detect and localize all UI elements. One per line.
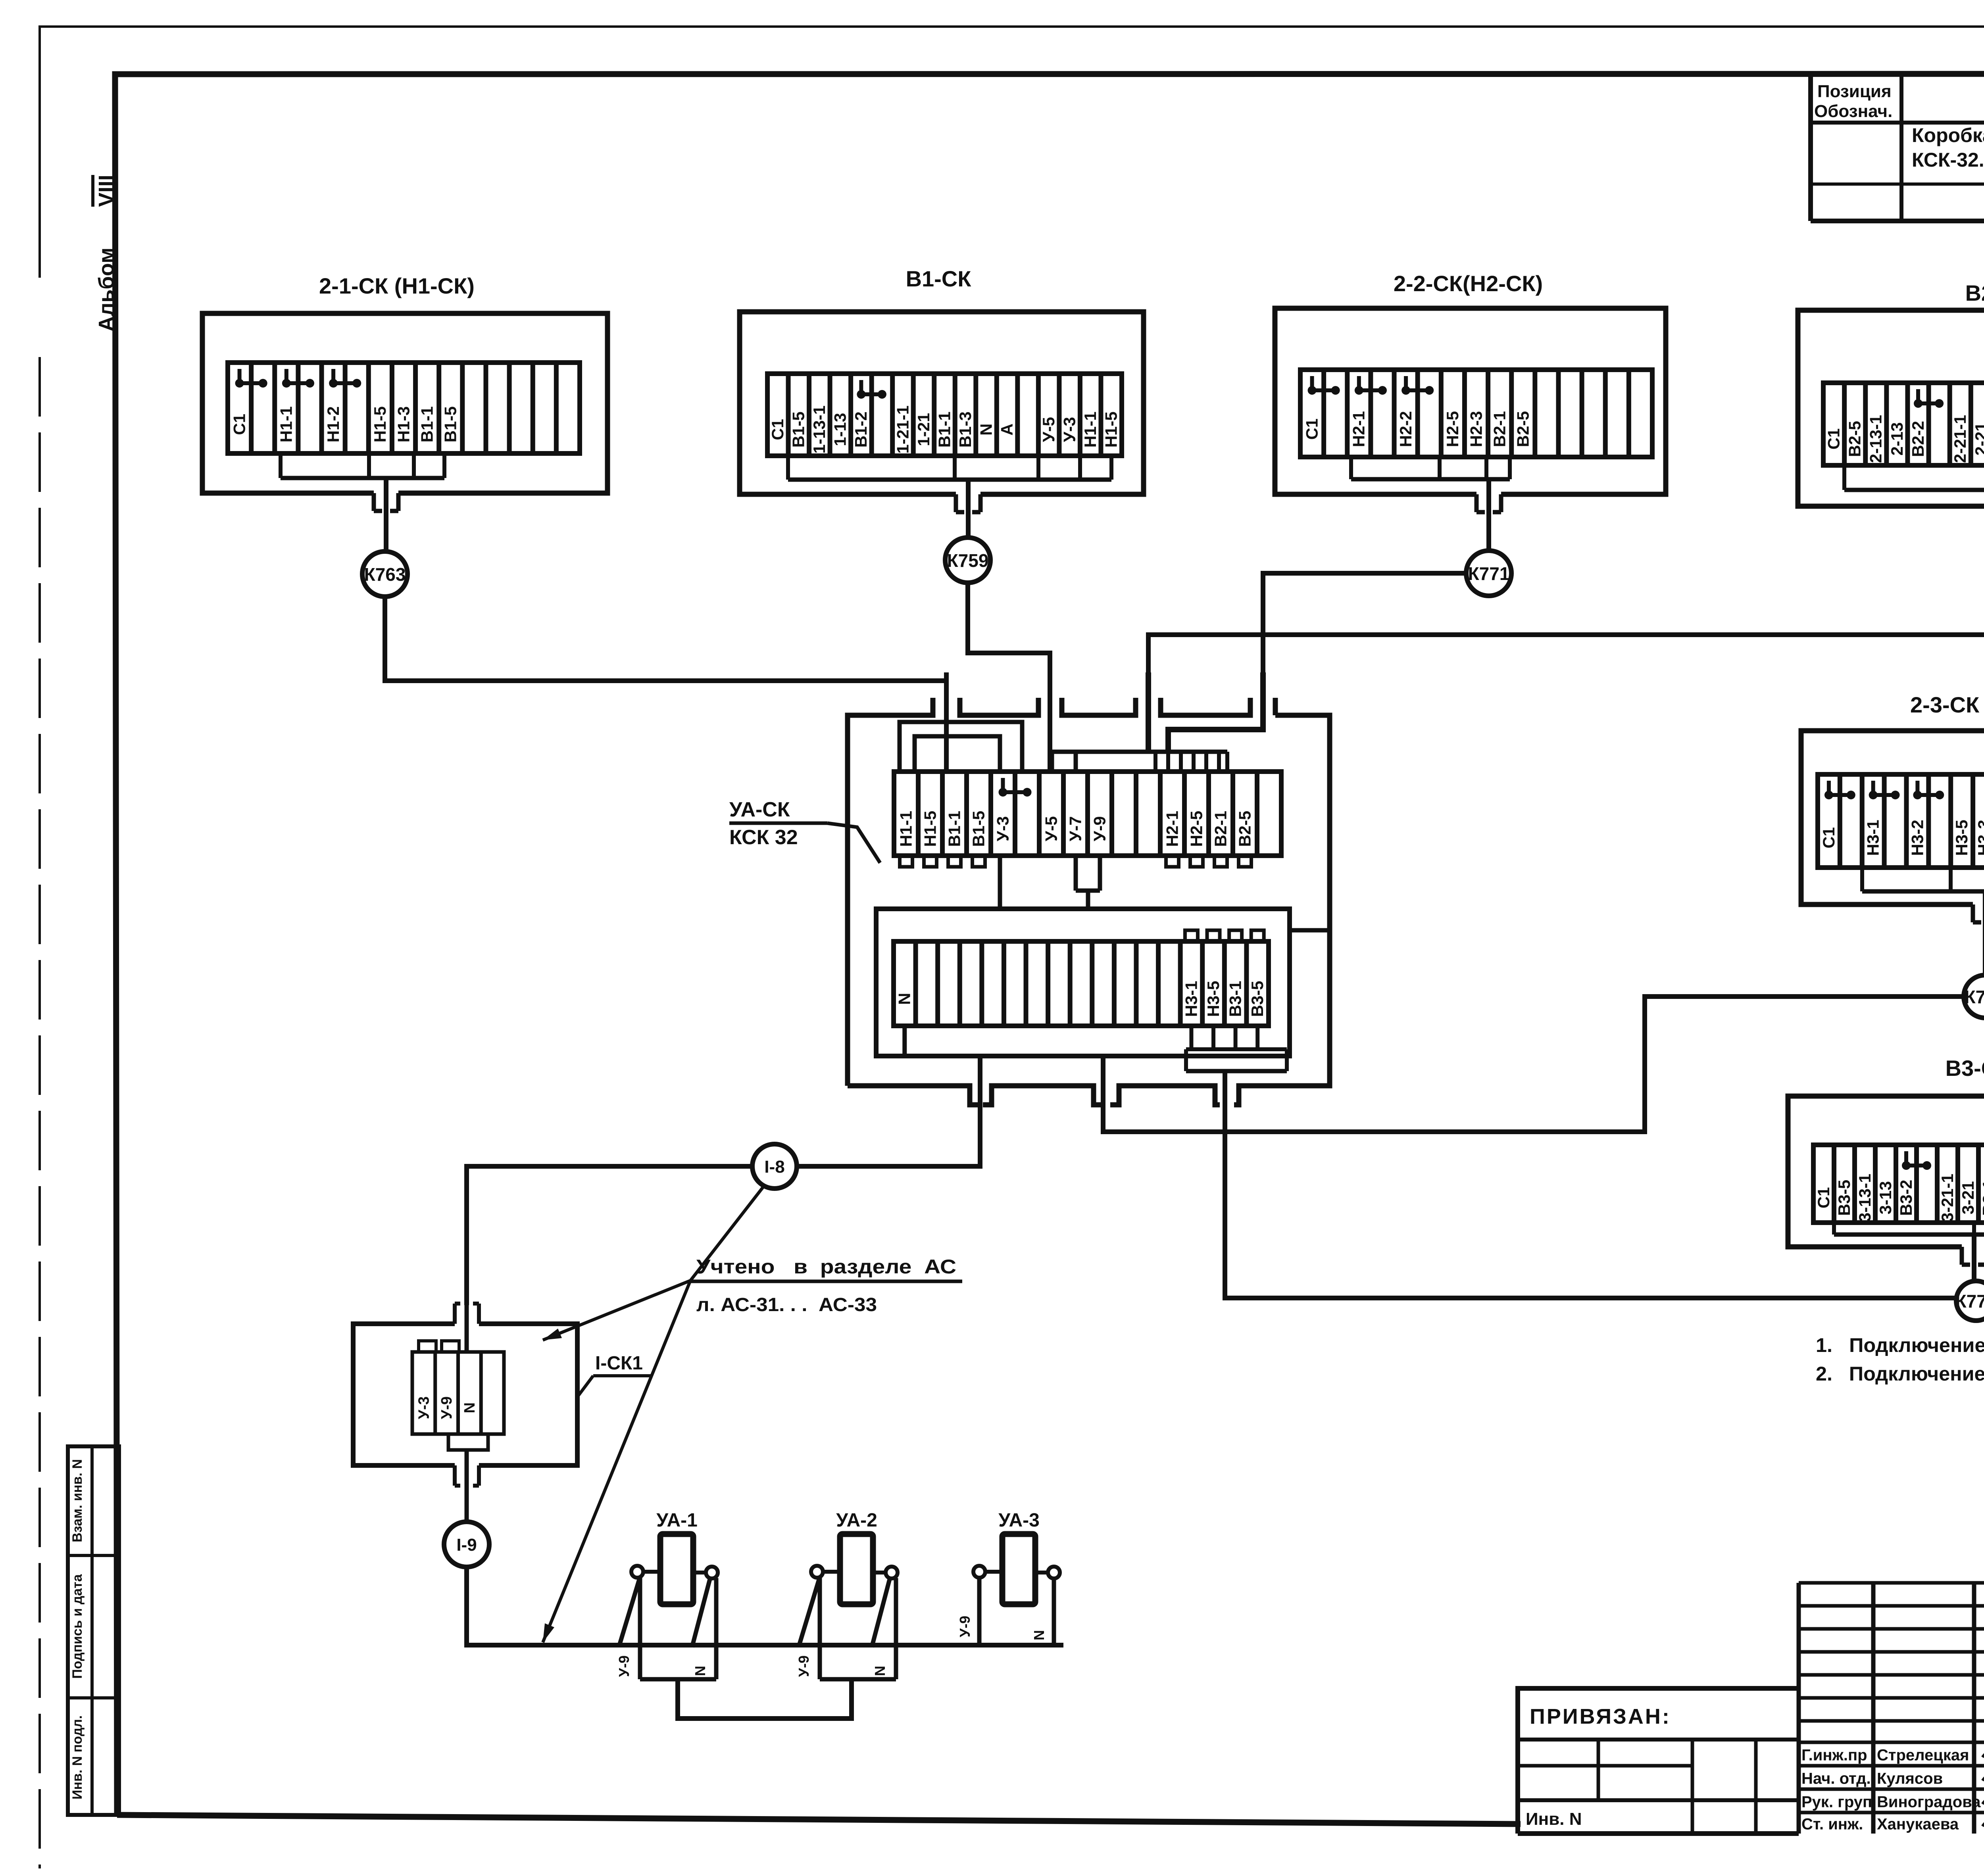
svg-text:У-5: У-5	[1042, 816, 1060, 841]
svg-text:Н1-5: Н1-5	[371, 406, 389, 442]
svg-text:С1: С1	[1824, 428, 1843, 450]
svg-text:л. АС-31. . . АС-33: л. АС-31. . . АС-33	[696, 1294, 877, 1315]
svg-text:Инв. N подл.: Инв. N подл.	[70, 1715, 85, 1799]
svg-text:В2-2: В2-2	[1909, 421, 1927, 457]
svg-text:Подпись и дата: Подпись и дата	[70, 1574, 85, 1679]
svg-text:У-9: У-9	[796, 1655, 812, 1677]
svg-text:Н1-5: Н1-5	[921, 811, 939, 847]
svg-text:Н2-2: Н2-2	[1396, 411, 1415, 447]
svg-text:Н2-1: Н2-1	[1350, 411, 1368, 447]
svg-text:В2-СК: В2-СК	[1965, 280, 1984, 305]
upper wiring brackets left group	[900, 722, 1022, 772]
svg-text:Взам. инв. N: Взам. инв. N	[70, 1459, 85, 1542]
upper terminal strip of УА-СК	[894, 772, 1281, 856]
terminal strip of В2-СК	[1823, 383, 1984, 465]
spares table header texts	[1814, 82, 1984, 121]
svg-text:Учтено в разделе АС: Учтено в разделе АС	[696, 1256, 956, 1278]
svg-text:Инв. N: Инв. N	[1526, 1809, 1582, 1829]
wire I-9 to bottom bus	[467, 1567, 1063, 1645]
circle I-9	[444, 1522, 489, 1567]
svg-text:I-8: I-8	[764, 1157, 784, 1177]
svg-text:Рук. груп: Рук. груп	[1801, 1793, 1872, 1811]
svg-text:Н3-1: Н3-1	[1864, 820, 1882, 856]
svg-text:У-7: У-7	[1066, 816, 1084, 841]
svg-text:Н2-5: Н2-5	[1443, 411, 1462, 447]
terminal box 2-1-СК outline	[202, 313, 608, 511]
svg-text:В3-2: В3-2	[1897, 1180, 1915, 1216]
wire K771 to УА-СК	[1263, 573, 1466, 674]
svg-text:У-3: У-3	[415, 1396, 432, 1419]
svg-text:У-9: У-9	[616, 1655, 632, 1677]
svg-text:N: N	[692, 1666, 708, 1676]
wire K763 to УА-СК	[385, 597, 946, 681]
wire from K763 into tab1	[944, 672, 949, 772]
svg-text:N: N	[895, 993, 914, 1005]
terminal box 2-2-СК title	[1394, 271, 1543, 296]
svg-text:Н2-5: Н2-5	[1187, 811, 1205, 847]
svg-text:ПРИВЯЗАН:: ПРИВЯЗАН:	[1530, 1705, 1671, 1728]
svg-text:В1-5: В1-5	[441, 406, 460, 442]
device УА-2	[796, 1510, 898, 1679]
svg-text:Н3-1: Н3-1	[1182, 981, 1200, 1017]
svg-text:Н1-2: Н1-2	[324, 406, 342, 442]
terminal box 2-3-СК outline	[1801, 731, 1984, 922]
wire N cell to inner box bottom	[902, 1026, 907, 1056]
svg-text:1-21: 1-21	[914, 413, 933, 446]
svg-text:УА-1: УА-1	[656, 1510, 698, 1531]
svg-text:К759: К759	[947, 550, 989, 571]
svg-text:В2-5: В2-5	[1846, 421, 1864, 457]
svg-text:N: N	[872, 1666, 888, 1676]
terminal strip of 2-3-СК	[1818, 774, 1984, 868]
junction box УА-СК outline	[848, 698, 1330, 1105]
svg-text:Н1-5: Н1-5	[1102, 411, 1121, 447]
cable circle К763	[362, 551, 408, 597]
svg-text:К771: К771	[1468, 563, 1510, 584]
privyazan table	[1518, 1688, 1799, 1834]
svg-text:Г.инж.пр: Г.инж.пр	[1801, 1747, 1867, 1764]
terminal box В2-СК title	[1965, 280, 1984, 305]
device УА-1	[616, 1510, 718, 1679]
svg-text:К775: К775	[1955, 1291, 1984, 1311]
terminal box 2-1-СК title	[319, 273, 475, 298]
svg-text:У-3: У-3	[1060, 417, 1079, 442]
svg-text:A: A	[998, 424, 1016, 436]
lower inner box of УА-СК	[876, 909, 1330, 1056]
svg-text:С1: С1	[230, 414, 248, 435]
svg-text:I-СК1: I-СК1	[595, 1353, 643, 1374]
connection bus of 2-2-СК	[1351, 457, 1510, 551]
svg-text:1. Подключение коробок: 1. Подключение коробок Н1-СК , Н2-СК , Н…	[1816, 1334, 1984, 1356]
svg-text:Н3-3: Н3-3	[1974, 820, 1984, 856]
svg-text:2-2-СК(Н2-СК): 2-2-СК(Н2-СК)	[1394, 271, 1543, 296]
svg-text:3-21-1: 3-21-1	[1938, 1174, 1957, 1222]
terminal box В3-СК outline	[1788, 1096, 1984, 1265]
svg-text:2-21: 2-21	[1972, 422, 1984, 455]
wire K759 to УА-СК	[968, 583, 1050, 674]
wire K780 to УА-СК	[1103, 997, 1964, 1132]
svg-text:Кулясов: Кулясов	[1877, 1770, 1943, 1788]
svg-text:В3-СК: В3-СК	[1946, 1056, 1984, 1081]
svg-text:1-21-1: 1-21-1	[893, 405, 912, 453]
svg-text:3-21: 3-21	[1959, 1181, 1977, 1214]
svg-text:В1-1: В1-1	[935, 411, 954, 447]
svg-text:2. Подключение коробок: 2. Подключение коробок В1-СК, В2-СК, В3-…	[1816, 1363, 1984, 1385]
svg-text:УА-2: УА-2	[836, 1510, 877, 1531]
terminal box 2-2-СК outline	[1275, 308, 1666, 512]
device УА-3	[957, 1510, 1060, 1645]
svg-text:К763: К763	[364, 564, 406, 585]
leader arrow to bus	[543, 1281, 690, 1642]
connection bus of 2-3-СК	[1862, 868, 1984, 975]
svg-text:В2-1: В2-1	[1490, 411, 1509, 447]
svg-text:С1: С1	[1814, 1187, 1833, 1208]
svg-text:С1: С1	[1819, 827, 1838, 849]
terminal box В2-СК outline	[1798, 310, 1984, 524]
svg-text:N: N	[1031, 1630, 1047, 1640]
connection bus of В2-СК	[1844, 465, 1984, 542]
svg-text:Н3-5: Н3-5	[1204, 981, 1223, 1017]
label УА-СК КСК 32 with leader	[729, 798, 880, 863]
svg-text:С1: С1	[1302, 419, 1321, 440]
terminal strip of 2-2-СК	[1300, 370, 1652, 457]
feet under upper strip cells	[900, 856, 1252, 867]
bus under cells Н3-1..В3-5	[1186, 1026, 1287, 1071]
svg-text:В2-5: В2-5	[1235, 811, 1254, 847]
wires У-7 У-9 down with bump	[1076, 856, 1100, 909]
box 1-СК1 outline	[353, 1304, 577, 1486]
svg-text:Нач. отд.: Нач. отд.	[1801, 1770, 1871, 1788]
svg-text:У-9: У-9	[1090, 816, 1109, 841]
cable circle К759	[945, 538, 990, 583]
svg-text:Н3-2: Н3-2	[1908, 820, 1926, 856]
svg-text:Н1-3: Н1-3	[394, 406, 413, 442]
leader arrow to 1-СК1	[543, 1281, 690, 1340]
wire from K767 into tab3	[1146, 672, 1151, 752]
title block central signature table	[1799, 1583, 1984, 1834]
svg-text:2-13-1: 2-13-1	[1867, 415, 1885, 463]
U-connector УА-1 to УА-2	[678, 1679, 852, 1719]
svg-text:N: N	[977, 424, 995, 436]
svg-text:С1: С1	[768, 419, 787, 440]
svg-text:В1-СК: В1-СК	[906, 266, 972, 291]
svg-text:Альбом: Альбом	[94, 248, 118, 332]
svg-text:У-3: У-3	[993, 816, 1012, 841]
svg-text:УА-СК: УА-СК	[729, 798, 790, 821]
svg-text:2-1-СК (Н1-СК): 2-1-СК (Н1-СК)	[319, 273, 475, 298]
svg-text:К780: К780	[1965, 987, 1984, 1007]
leader to I-8	[690, 1186, 764, 1281]
svg-text:В1-1: В1-1	[417, 406, 436, 442]
svg-text:Н1-1: Н1-1	[1081, 411, 1100, 447]
svg-text:Позиция: Позиция	[1817, 82, 1892, 101]
left stamp strip	[68, 1446, 119, 1815]
svg-text:Н1-1: Н1-1	[277, 406, 296, 442]
svg-text:VIII: VIII	[94, 175, 118, 207]
cable circle К771	[1466, 551, 1511, 596]
svg-text:Стрелецкая: Стрелецкая	[1877, 1747, 1969, 1764]
note Учтено в разделе АС	[690, 1256, 962, 1315]
svg-text:У-9: У-9	[957, 1616, 973, 1637]
terminal box В1-СК title	[906, 266, 972, 291]
svg-text:Коробка соединительная: Коробка соединительная	[1912, 124, 1984, 146]
circle I-8	[752, 1144, 797, 1189]
svg-text:У-9: У-9	[438, 1396, 455, 1419]
svg-text:КСК 32: КСК 32	[729, 826, 798, 849]
terminal box В1-СК outline	[740, 312, 1144, 512]
svg-text:Н2-3: Н2-3	[1467, 411, 1485, 447]
wire I-8 to box 1-СК1	[467, 1166, 752, 1305]
signature rows	[1801, 1747, 1984, 1833]
svg-text:В2-5: В2-5	[1514, 411, 1532, 447]
svg-text:Н2-1: Н2-1	[1163, 811, 1181, 847]
svg-text:У-5: У-5	[1039, 417, 1058, 442]
svg-text:В3-1: В3-1	[1979, 1180, 1984, 1216]
svg-text:Н1-1: Н1-1	[896, 811, 915, 847]
wire from K771 into tab4 with jog	[1168, 672, 1263, 752]
svg-text:Обознач.: Обознач.	[1814, 102, 1892, 121]
svg-text:3-13: 3-13	[1876, 1181, 1895, 1214]
cable circle К775	[1955, 1281, 1984, 1321]
note 1 подключение коробок	[1816, 1334, 1984, 1356]
terminal strip of В3-СК	[1813, 1145, 1984, 1223]
svg-text:В3-5: В3-5	[1248, 981, 1267, 1017]
cable circle К780	[1964, 975, 1984, 1018]
wire У-3 down to lower box	[998, 856, 1002, 909]
upper wiring bus right group	[1051, 752, 1227, 772]
connection bus of В1-СК	[788, 456, 1111, 538]
svg-text:В2-1: В2-1	[1211, 811, 1230, 847]
svg-text:N: N	[461, 1402, 478, 1413]
label I-СК1	[578, 1353, 651, 1396]
wire K767 to УА-СК	[1148, 587, 1984, 674]
lower terminal strip of УА-СК	[894, 941, 1269, 1026]
svg-text:I-9: I-9	[456, 1535, 477, 1555]
svg-text:3-13-1: 3-13-1	[1855, 1174, 1874, 1222]
terminal box 2-3-СК title	[1910, 692, 1984, 717]
feet above lower strip cells 14-17	[1185, 930, 1264, 941]
svg-text:1-13: 1-13	[831, 413, 850, 446]
svg-text:В3-1: В3-1	[1226, 981, 1244, 1017]
strip inside 1-СК1	[412, 1341, 504, 1450]
svg-text:КСК-32.: КСК-32.	[1912, 149, 1984, 171]
svg-text:В1-5: В1-5	[789, 411, 808, 447]
svg-text:Виноградова: Виноградова	[1877, 1793, 1981, 1811]
svg-text:УА-3: УА-3	[998, 1510, 1040, 1531]
svg-text:В1-5: В1-5	[969, 811, 988, 847]
connection bus of В3-СК	[1834, 1223, 1984, 1281]
spares table top right	[1811, 74, 1984, 221]
svg-text:Н3-5: Н3-5	[1952, 820, 1971, 856]
svg-text:В1-1: В1-1	[945, 811, 963, 847]
svg-text:2-13: 2-13	[1888, 422, 1906, 455]
terminal strip of В1-СК	[767, 374, 1122, 456]
wire K775 to УА-СК	[1225, 1071, 1956, 1298]
svg-text:2-3-СК (Н3-СК): 2-3-СК (Н3-СК)	[1910, 692, 1984, 717]
svg-text:В1-3: В1-3	[956, 411, 975, 447]
album VIII rotated label	[93, 175, 118, 332]
svg-text:1-13-1: 1-13-1	[810, 405, 829, 453]
wire to I-8	[797, 1056, 980, 1166]
terminal strip of 2-1-СК	[228, 363, 580, 453]
wire through 1-СК1	[465, 1305, 469, 1522]
svg-text:2-21-1: 2-21-1	[1951, 415, 1969, 463]
svg-text:В3-5: В3-5	[1835, 1180, 1853, 1216]
connection bus of 2-1-СК	[281, 453, 444, 551]
svg-text:Ханукаева: Ханукаева	[1877, 1816, 1959, 1833]
note 2 подключение коробок	[1816, 1363, 1984, 1385]
terminal box В3-СК title	[1946, 1056, 1984, 1081]
svg-text:В1-2: В1-2	[852, 411, 870, 447]
spares table row: KCK-32	[1912, 124, 1984, 179]
wire from K759 into tab2	[1048, 672, 1052, 772]
svg-text:Ст. инж.: Ст. инж.	[1801, 1816, 1863, 1833]
